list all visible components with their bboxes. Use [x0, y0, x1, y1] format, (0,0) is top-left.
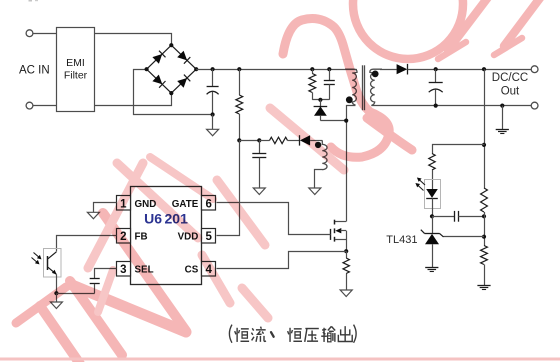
caption (constant current, constant voltage output)	[229, 325, 356, 343]
cropped text remnant top-left	[29, 0, 39, 2]
svg-text:VDD: VDD	[178, 232, 199, 243]
ground primary (bulk cap)	[207, 129, 219, 136]
bridge diode D2 (top to right)	[177, 51, 190, 64]
wire pin2 FB to optocoupler collector	[57, 236, 117, 252]
diode output rectifier	[397, 64, 408, 75]
IC pin 3 box SEL	[117, 262, 131, 277]
optocoupler LED box	[425, 180, 441, 209]
watermark bottom strip	[0, 358, 560, 361]
optocoupler light arrows in	[32, 253, 42, 265]
IC pin 5 box VDD	[202, 229, 216, 244]
wire EMI top out to bridge top	[95, 34, 172, 46]
wire emitter bus to SEL cap	[56, 293, 94, 295]
label AC IN	[19, 65, 50, 77]
ground secondary output	[496, 130, 509, 134]
ground aux winding	[309, 188, 321, 195]
wire secondary ground stub	[502, 106, 504, 130]
node optocoupler emitter junction	[54, 291, 58, 295]
node output cap top	[434, 67, 438, 71]
wire secondary bottom rail	[371, 105, 531, 107]
IC pin 6 box GATE	[202, 196, 216, 211]
EMI filter block	[57, 28, 95, 112]
svg-text:Out: Out	[501, 86, 520, 98]
svg-text:U6201: U6201	[144, 211, 188, 227]
bridge diode D3 (left to bottom)	[152, 75, 165, 88]
ground sense resistor	[340, 290, 352, 297]
wire to primary ground	[212, 115, 214, 130]
node bridge left vertex	[145, 67, 149, 71]
bridge diode D4 (bottom to right)	[177, 75, 190, 88]
IC pin 1 box GND	[117, 196, 131, 211]
diode clamp (cathode up)	[314, 100, 328, 121]
IC pin label SEL	[135, 265, 154, 276]
label DC/CC Out	[492, 72, 528, 98]
ground VDD cap	[253, 188, 265, 195]
capacitor SEL	[90, 279, 100, 294]
wire pin1 to ground	[94, 203, 117, 213]
capacitor VDD	[252, 140, 266, 188]
watermark letters ll (top right)	[438, 0, 552, 59]
node secondary ground junction	[500, 104, 504, 108]
node bridge right vertex	[194, 67, 198, 71]
terminal AC top	[26, 30, 33, 37]
resistor VDD series	[259, 137, 299, 143]
LED diode (cathode down)	[426, 189, 438, 216]
svg-text:SEL: SEL	[135, 265, 154, 276]
watermark diagonal strokes middle	[242, 108, 344, 318]
wire pin3 SEL to cap	[95, 269, 117, 279]
wire CS from pin4	[217, 252, 347, 269]
svg-text:TL431: TL431	[386, 234, 417, 246]
wire clamp anode to switch node	[320, 120, 346, 122]
capacitor compensation	[432, 211, 484, 222]
node aux phase dot	[315, 142, 321, 148]
winding transformer primary	[345, 69, 357, 105]
svg-text:EMI: EMI	[66, 57, 85, 69]
node snubber cap top	[327, 67, 331, 71]
wire feedback divider vertical	[484, 69, 486, 188]
IC pin label GATE	[172, 199, 199, 210]
bridge diode D1 (left to top)	[152, 51, 165, 64]
watermark letter I (bottom-left)	[16, 287, 80, 362]
node secondary phase dot	[372, 71, 379, 78]
ground TL431 anode	[425, 268, 438, 272]
node VDD junction A	[237, 138, 241, 142]
IC pin label FB	[135, 232, 148, 243]
svg-text:GATE: GATE	[172, 199, 199, 210]
capacitor output electrolytic	[429, 69, 443, 105]
node bulk cap top	[211, 67, 215, 71]
wire snubber bottom join	[312, 99, 329, 101]
IC pin label CS	[185, 265, 199, 276]
svg-text:5: 5	[205, 231, 212, 243]
svg-text:DC/CC: DC/CC	[492, 72, 528, 84]
wire bridge left vertex to negative bus	[134, 70, 213, 115]
resistor current sense	[343, 251, 349, 290]
resistor LED series	[429, 154, 435, 190]
optocoupler phototransistor	[44, 249, 62, 294]
wire LED branch top	[433, 145, 485, 154]
node snubber bottom junction	[318, 98, 322, 102]
node divider mid junction B (ref)	[482, 235, 486, 239]
wire secondary top to output diode	[380, 69, 397, 71]
IC pin 2 box FB	[117, 229, 131, 244]
resistor startup	[236, 69, 243, 140]
node divider mid junction A	[482, 214, 486, 218]
wire primary bottom to switch node	[347, 106, 356, 222]
IC pin label VDD	[178, 232, 199, 243]
wire gate from pin6	[217, 203, 331, 235]
node bridge bottom vertex	[169, 91, 173, 95]
svg-text:2: 2	[120, 231, 126, 243]
node switch node junction	[344, 119, 348, 123]
wire EMI bottom out to bridge bottom	[95, 94, 172, 106]
node primary phase dot	[346, 96, 353, 103]
node LED branch junction	[482, 143, 486, 147]
resistor divider lower	[481, 246, 488, 286]
node startup resistor top	[237, 67, 241, 71]
svg-text:3: 3	[120, 264, 126, 276]
node snubber resistor top	[310, 67, 314, 71]
shunt regulator TL431	[421, 216, 444, 267]
winding auxiliary	[322, 140, 327, 169]
IC name U6201	[144, 211, 188, 227]
svg-text:6: 6	[205, 198, 211, 210]
wire AC bottom input	[33, 105, 56, 107]
svg-text:1: 1	[120, 198, 127, 210]
svg-text:Filter: Filter	[64, 70, 88, 82]
svg-text:FB: FB	[135, 232, 148, 243]
wire AC top input	[33, 33, 56, 35]
LED light arrows out	[415, 178, 425, 191]
wire HV bus (bridge to transformer)	[196, 69, 357, 71]
resistor divider upper	[481, 188, 488, 246]
IC pin label GND	[135, 199, 157, 210]
winding transformer secondary	[370, 69, 382, 105]
capacitor bulk electrolytic	[207, 69, 219, 114]
ground pin1	[87, 212, 99, 219]
svg-text:CS: CS	[185, 265, 199, 276]
IC pin 4 box CS	[202, 262, 216, 277]
svg-text:GND: GND	[135, 199, 157, 210]
node TL431 cathode junction	[430, 214, 434, 218]
node feedback divider top	[482, 67, 486, 71]
node bridge top vertex	[169, 43, 173, 47]
terminal DC out minus	[531, 102, 538, 109]
terminal AC bottom	[26, 102, 33, 109]
transistor MOSFET Q1	[331, 220, 347, 252]
capacitor snubber	[324, 69, 335, 100]
terminal DC out plus	[531, 66, 538, 73]
transformer core	[363, 65, 365, 110]
IC U6201 body	[131, 187, 202, 285]
label TL431	[386, 234, 417, 246]
svg-text:4: 4	[205, 264, 212, 276]
node MOSFET source junction	[344, 249, 348, 253]
watermark strokes crossing IC (letter V / I of middle row)	[88, 157, 265, 312]
ground divider	[477, 286, 490, 290]
svg-text:AC IN: AC IN	[19, 65, 50, 77]
node negative bus junction	[211, 112, 215, 116]
watermark letter S (top)	[283, 19, 412, 158]
wire TL431 ref	[444, 236, 485, 238]
ground optocoupler emitter	[50, 293, 62, 308]
wire aux bottom to ground	[315, 170, 323, 189]
node VDD junction B	[257, 138, 261, 142]
watermark letter e (top)	[353, 0, 463, 59]
node output cap bottom	[434, 104, 438, 108]
wire output diode to terminal	[408, 69, 532, 71]
bridge rectifier BD1 frame	[147, 45, 197, 93]
diode VDD rectifier (cathode left)	[300, 135, 323, 145]
resistor snubber	[309, 69, 316, 100]
wire VDD node A to B	[239, 140, 259, 142]
wire VDD node to pin5	[217, 141, 240, 236]
watermark letter N (bottom-left)	[70, 213, 186, 355]
